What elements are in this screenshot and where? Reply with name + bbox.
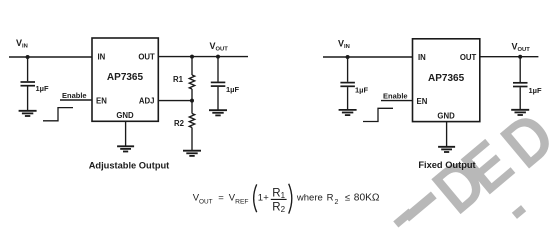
svg-text:1µF: 1µF	[36, 84, 49, 93]
ground (left output cap)	[209, 110, 227, 115]
capacitor C-out 1uF (left circuit)	[211, 57, 226, 110]
left parenthesis (big)	[254, 184, 257, 212]
svg-text:=: =	[218, 193, 224, 204]
svg-text:Adjustable Output: Adjustable Output	[89, 161, 170, 171]
resistor R1 (left)	[189, 57, 194, 101]
svg-text:1: 1	[258, 193, 263, 204]
wire OUT to VOUT (left circuit)	[158, 56, 248, 58]
svg-text:ADJ: ADJ	[139, 96, 155, 105]
watermark fragment: E top arm tip (bottom left of watermark)	[403, 191, 436, 221]
ground (right output cap)	[511, 110, 529, 115]
wire OUT to VOUT (right circuit)	[480, 56, 539, 58]
watermark fragment (letter tip, bottom right)	[512, 205, 526, 219]
svg-text:EN: EN	[417, 97, 428, 106]
watermark fragment: E middle arm tip	[393, 209, 413, 228]
svg-text:80KΩ: 80KΩ	[354, 193, 380, 204]
wire EN / Enable underline (left circuit)	[60, 99, 92, 101]
svg-text:OUT: OUT	[138, 52, 155, 61]
ground (U2 GND pin)	[438, 147, 455, 152]
watermark SUPERSEDED (visible tail letters D E D)	[420, 98, 550, 228]
node VOUT junction dot (right)	[518, 55, 522, 59]
capacitor C-in 1uF (left circuit)	[21, 57, 36, 110]
op-amp / regulator U1 AP7365 box (left)	[92, 38, 158, 121]
svg-text:2: 2	[335, 199, 339, 206]
svg-text:EN: EN	[96, 97, 107, 106]
right parenthesis (big)	[289, 184, 292, 214]
ground (left input cap)	[19, 111, 37, 116]
wire VIN input (left circuit)	[9, 56, 92, 58]
wire GND pin (U1)	[125, 121, 127, 146]
svg-text:Fixed Output: Fixed Output	[418, 160, 475, 170]
svg-text:1µF: 1µF	[226, 85, 239, 94]
svg-text:R2: R2	[174, 119, 185, 128]
svg-text:OUT: OUT	[460, 53, 477, 62]
svg-text:R: R	[327, 193, 334, 204]
formula VOUT = VREF(1 + R1/R2) where R2 <= 80KOhm	[193, 187, 380, 214]
svg-text:1µF: 1µF	[355, 86, 368, 95]
node VOUT/R1 junction dot (left)	[190, 55, 194, 59]
svg-text:Enable: Enable	[62, 91, 87, 100]
enable step waveform (right)	[363, 108, 393, 121]
op-amp / regulator U2 AP7365 box (right)	[413, 39, 480, 122]
svg-text:IN: IN	[418, 53, 426, 62]
svg-text:+: +	[263, 192, 269, 203]
wire VIN input (right circuit)	[323, 56, 413, 58]
wire EN / Enable underline (right circuit)	[381, 100, 413, 102]
capacitor C-out 1uF (right circuit)	[513, 57, 528, 109]
node ADJ junction dot (left)	[190, 99, 194, 103]
svg-text:≤: ≤	[345, 193, 350, 204]
svg-text:IN: IN	[98, 52, 106, 61]
wire ADJ (left circuit)	[158, 100, 192, 102]
svg-text:1µF: 1µF	[529, 86, 542, 95]
svg-text:GND: GND	[437, 112, 455, 121]
svg-text:AP7365: AP7365	[107, 72, 144, 83]
enable step waveform (left)	[43, 108, 73, 121]
fraction bar R1/R2	[271, 198, 287, 200]
node VIN junction dot (left)	[26, 55, 30, 59]
ground (right input cap)	[339, 110, 357, 115]
svg-text:AP7365: AP7365	[428, 73, 465, 84]
svg-text:GND: GND	[116, 111, 134, 120]
capacitor C-in 1uF (right circuit)	[340, 57, 355, 109]
wire GND pin (U2)	[446, 122, 448, 147]
svg-text:where: where	[296, 193, 323, 204]
node output cap junction dot (left)	[216, 55, 220, 59]
ground (U1 GND pin)	[117, 146, 134, 151]
node VIN junction dot (right)	[346, 55, 350, 59]
ground (R2)	[183, 151, 201, 156]
resistor R2 (left)	[189, 101, 194, 151]
svg-text:R1: R1	[173, 75, 184, 84]
svg-text:Enable: Enable	[383, 92, 408, 101]
